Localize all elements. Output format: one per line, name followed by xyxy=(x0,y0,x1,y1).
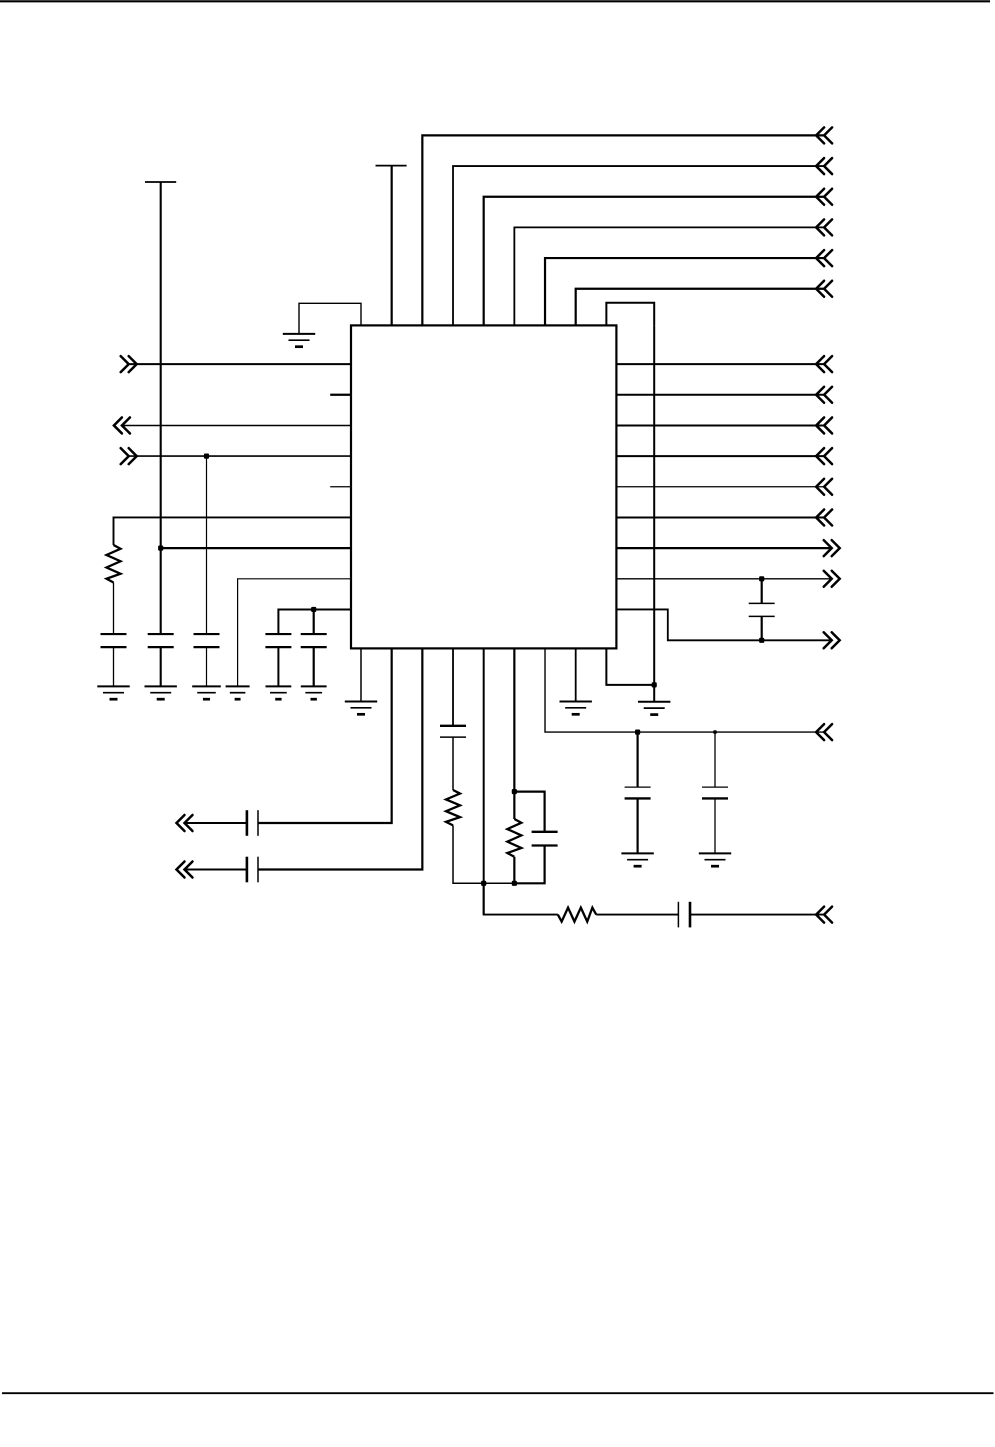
capacitor C8 xyxy=(440,726,466,737)
wire R3 to node B xyxy=(513,857,515,884)
connector arrow right 1 xyxy=(816,356,832,372)
wire C12 to ground xyxy=(714,798,716,853)
connector arrow bottom-left 2 xyxy=(177,862,193,878)
connector arrow top 5 xyxy=(816,250,832,266)
ground under L8 wire xyxy=(226,686,250,699)
wire pin R7 to connector xyxy=(616,547,831,549)
junction L9/C5 xyxy=(311,607,316,612)
capacitor C11 xyxy=(625,787,651,798)
ground under C12 xyxy=(699,853,731,866)
wire C1 to ground xyxy=(113,647,115,686)
connector arrow top 4 xyxy=(816,219,832,235)
capacitor C9 xyxy=(532,832,558,846)
power rail T-bar xyxy=(145,181,176,183)
wire pin L7 to rail xyxy=(161,547,351,549)
junction C13 bottom xyxy=(759,638,764,643)
junction node B xyxy=(512,881,517,886)
wire node C to C9 xyxy=(514,792,544,832)
connector arrow left 2 xyxy=(114,417,130,433)
wire C5 to ground xyxy=(313,647,315,686)
wire C7 to connector xyxy=(185,869,247,871)
wire pin T3 to connector xyxy=(422,135,824,325)
wire pin B2 to C6 xyxy=(258,648,392,823)
wire pin B8 to ground xyxy=(575,648,577,701)
ground at bus bottom xyxy=(638,702,670,715)
connector arrow right 2 xyxy=(816,387,832,403)
wire C8 to R2 xyxy=(452,737,454,790)
capacitor C3 xyxy=(194,634,220,647)
ground bus vertical xyxy=(653,325,655,701)
connector arrow right 3 xyxy=(816,417,832,433)
wire R4 to C10 xyxy=(596,914,678,916)
wire node A to node B xyxy=(484,882,515,884)
wire pin R9 step-down xyxy=(616,609,831,640)
wire pin B4 to C8 xyxy=(452,648,454,725)
wire pin R6 to connector xyxy=(616,516,824,518)
wire C3 to ground xyxy=(206,647,208,686)
connector arrow bottom 3 xyxy=(816,907,832,923)
wire junction to C5 xyxy=(313,609,315,634)
resistor R2 xyxy=(446,790,460,825)
wire pin T6 to connector xyxy=(514,227,824,325)
wire pin T4 to connector xyxy=(453,166,824,325)
wire pin R1 to connector xyxy=(616,363,824,365)
wire pin B3 to C7 xyxy=(258,648,422,869)
capacitor C2 xyxy=(148,634,174,647)
connector arrow top 2 xyxy=(816,158,832,174)
connector arrow top 1 xyxy=(816,127,832,143)
wire pin B9 to ground bus xyxy=(606,648,654,685)
bottom border rule xyxy=(2,1392,994,1394)
wire C4 to ground xyxy=(277,647,279,686)
wire R1 to C1 xyxy=(113,583,115,635)
wire pin L3 to connector xyxy=(122,424,351,426)
capacitor C5 xyxy=(301,634,327,647)
wire pin T7 to connector xyxy=(545,258,824,325)
wire C9 to node B xyxy=(514,846,544,884)
ground under B1 xyxy=(345,702,377,715)
wire C2 to ground xyxy=(160,647,162,686)
ground under C3 xyxy=(192,686,221,699)
wire pin T8 to connector xyxy=(576,289,824,326)
capacitor C7 xyxy=(247,857,258,883)
wire pin B7 to connector xyxy=(545,648,824,732)
wire C11 to ground xyxy=(636,798,638,853)
wire pin R2 to connector xyxy=(616,394,824,396)
wire R2 to node A xyxy=(453,825,484,883)
wire node C to R3 xyxy=(513,792,515,819)
connector arrow right 8 xyxy=(824,571,840,587)
wire pin L1 from connector xyxy=(129,363,351,365)
wire pin L8 to ground xyxy=(238,579,351,687)
ground under C5 xyxy=(301,686,327,699)
capacitor C6 xyxy=(247,810,258,836)
capacitor C12 xyxy=(702,787,728,798)
wire junction to C11 xyxy=(636,732,638,787)
connector arrow top 6 xyxy=(816,281,832,297)
capacitor C10 xyxy=(678,902,690,928)
resistor R3 xyxy=(507,819,521,857)
connector arrow right 7 xyxy=(824,540,840,556)
connector arrow bottom-left 1 xyxy=(177,815,193,831)
wire pin B6 to R3 xyxy=(513,648,515,791)
connector arrow top 3 xyxy=(816,189,832,205)
connector arrow bottom-right 4 xyxy=(816,724,832,740)
wire pin L6 to R1 xyxy=(114,517,352,545)
ground under C2 xyxy=(145,686,177,699)
connector arrow right 6 xyxy=(816,509,832,525)
connector arrow right 9 xyxy=(824,632,840,648)
power rail vertical xyxy=(160,182,162,634)
resistor R1 xyxy=(107,545,121,583)
ground under C11 xyxy=(621,853,653,866)
wire pin R3 to connector xyxy=(616,424,824,426)
wire node A to R4 xyxy=(484,883,558,914)
ground under C4 xyxy=(266,686,292,699)
top border rule xyxy=(0,0,990,2)
ground near top-left of U1 xyxy=(283,334,315,347)
wire pin R4 to connector xyxy=(616,455,824,457)
ground under B8 xyxy=(559,702,591,715)
wire pin B1 to ground xyxy=(360,648,362,701)
junction rail/L7 xyxy=(158,546,163,551)
capacitor C13 leads xyxy=(761,579,763,604)
junction C13 top xyxy=(759,576,764,581)
connector arrow left 1 xyxy=(121,356,137,372)
junction ground bus xyxy=(652,682,657,687)
junction C12 top xyxy=(713,730,717,734)
wire pin T9 to ground bus xyxy=(606,303,654,326)
wire pin T1 to ground xyxy=(299,303,361,334)
junction node C xyxy=(512,789,517,794)
antenna stub pin T2 xyxy=(391,166,393,326)
stub pin L2 xyxy=(330,394,351,396)
wire pin B5 vertical xyxy=(483,648,485,914)
junction C11 top xyxy=(635,730,640,735)
wire node L4 to C3 xyxy=(206,456,208,634)
connector arrow right 5 xyxy=(816,479,832,495)
IC U1 body xyxy=(351,325,616,648)
stub pin L5 xyxy=(330,486,351,488)
wire C10 to connector xyxy=(690,914,824,916)
wire pin L4 from connector xyxy=(129,455,351,457)
junction node L4/C3 xyxy=(204,454,209,459)
antenna stub T-bar xyxy=(376,165,407,167)
capacitor C1 xyxy=(101,634,127,647)
resistor R4 xyxy=(558,908,596,922)
wire pin L9 to C4 xyxy=(278,609,351,634)
connector arrow right 4 xyxy=(816,448,832,464)
wire pin R8 to connector xyxy=(616,578,831,580)
wire C6 to connector xyxy=(185,822,247,824)
capacitor C4 xyxy=(265,634,291,647)
wire pin T5 to connector xyxy=(484,197,824,326)
junction node A xyxy=(481,881,486,886)
ground under C1 xyxy=(97,686,129,699)
capacitor C13 xyxy=(749,603,775,616)
wire pin R5 to connector xyxy=(616,486,824,488)
connector arrow left 3 xyxy=(121,448,137,464)
wire junction to C12 xyxy=(714,732,716,787)
